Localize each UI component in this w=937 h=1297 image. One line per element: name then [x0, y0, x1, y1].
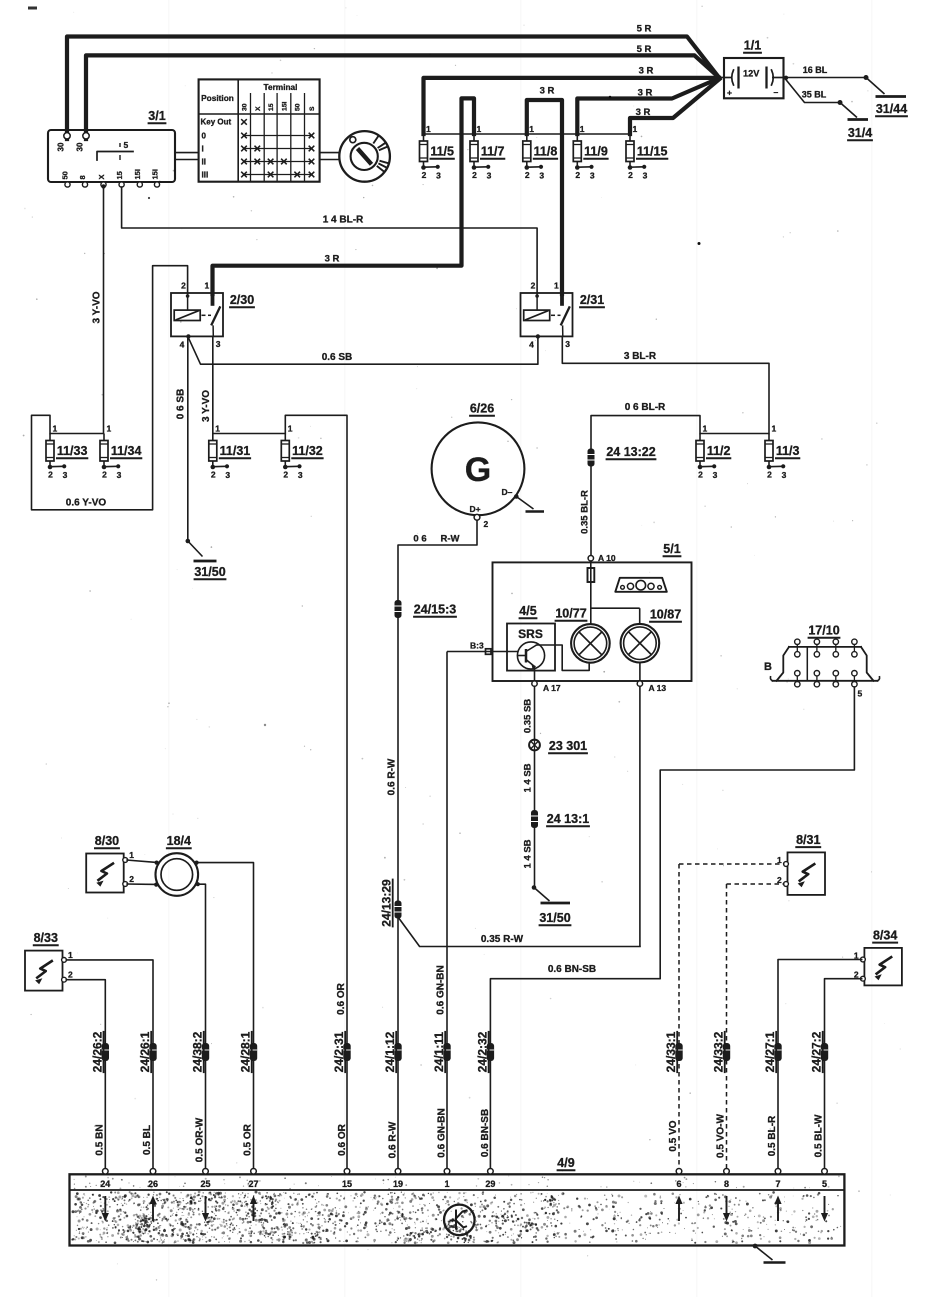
wire 16BL battery to ground 31/44	[786, 65, 885, 94]
svg-text:2: 2	[575, 170, 580, 180]
svg-text:24/27:1: 24/27:1	[763, 1031, 777, 1072]
wire 3R fuse 11/9 to battery 1/1	[577, 78, 719, 134]
svg-text:11/32: 11/32	[292, 444, 323, 458]
wire 3Y-VO relay 2/30 pin 3 to fuse 11/31	[201, 336, 213, 433]
splice 24/26:1	[138, 1031, 157, 1073]
wire 3BL-R relay 2/31 pin 3 to fuse 11/3	[562, 336, 769, 433]
svg-text:0: 0	[202, 131, 207, 140]
wire 0.6BN-SB connector 17/10 pin 5 to instrument 4/9 pin 29	[480, 687, 855, 1171]
svg-text:3: 3	[643, 171, 648, 181]
wire 0.35SB A17 to ground 31/50	[523, 686, 535, 739]
svg-text:0.5 OR-W: 0.5 OR-W	[195, 1117, 206, 1162]
svg-text:3: 3	[713, 470, 718, 480]
svg-text:2: 2	[525, 170, 530, 180]
fuse 11/32	[281, 424, 323, 481]
wire 0.5OR 18/4 to instrument 4/9 pin 27	[197, 863, 254, 1171]
svg-text:11/33: 11/33	[57, 444, 88, 458]
svg-text:3: 3	[117, 470, 122, 480]
svg-text:1: 1	[107, 424, 112, 434]
svg-text:A 10: A 10	[598, 553, 616, 563]
svg-text:17/10: 17/10	[808, 624, 839, 638]
svg-text:11/9: 11/9	[584, 145, 608, 159]
wire 5R ignition 3/1 pin30b to battery 1/1	[86, 55, 719, 139]
ignition switch 3/1	[48, 109, 175, 189]
svg-text:24/38:2: 24/38:2	[191, 1031, 205, 1072]
instrument symbol inside 4/9	[444, 1205, 475, 1236]
splice 24/13:1	[531, 810, 590, 828]
svg-text:8: 8	[78, 175, 87, 179]
svg-text:12V: 12V	[743, 69, 760, 79]
wire 0.5VO dashed 8/31 pin 1 to instrument 4/9 pin 6	[668, 864, 785, 1171]
svg-text:23 301: 23 301	[549, 739, 587, 753]
splice 24/2:31	[332, 1031, 351, 1073]
svg-text:8/31: 8/31	[796, 833, 820, 847]
svg-text:3: 3	[539, 171, 544, 181]
fuse 11/8	[523, 124, 558, 181]
wire 0.5OR-W 18/4 to instrument 4/9 pin 25	[198, 884, 206, 1171]
svg-text:3: 3	[298, 470, 303, 480]
svg-text:–: –	[774, 87, 779, 97]
svg-text:0.5 BL-W: 0.5 BL-W	[814, 1114, 825, 1157]
svg-text:15: 15	[268, 103, 275, 111]
svg-text:5: 5	[124, 140, 129, 150]
fuse 11/33	[46, 424, 88, 481]
splice 24/13:22	[588, 445, 657, 467]
svg-text:I: I	[202, 145, 204, 154]
svg-text:11/8: 11/8	[534, 145, 558, 159]
svg-text:0.5 OR: 0.5 OR	[243, 1123, 254, 1155]
wire 3R fuse 11/5 to battery 1/1	[424, 78, 720, 134]
svg-text:24/33:2: 24/33:2	[712, 1031, 726, 1072]
bulb test point 23/301	[529, 739, 588, 753]
svg-text:35 BL: 35 BL	[802, 90, 827, 100]
svg-text:2: 2	[767, 470, 772, 480]
svg-text:24/15:3: 24/15:3	[414, 603, 456, 617]
svg-text:26: 26	[148, 1179, 158, 1189]
svg-text:3 R: 3 R	[325, 254, 340, 265]
relay 2/30	[171, 281, 255, 350]
wire bus joining fuse pins 1 (11/5-11/15)	[424, 133, 631, 135]
svg-text:3 Y-VO: 3 Y-VO	[201, 390, 212, 422]
splice 24/27:1	[763, 1031, 782, 1073]
svg-text:11/31: 11/31	[220, 444, 251, 458]
svg-text:0.6 SB: 0.6 SB	[322, 352, 353, 363]
svg-text:24/2:31: 24/2:31	[332, 1031, 346, 1072]
wire 0.6BL-R fuse 11/2 to combined instrument pin A10	[580, 402, 701, 555]
svg-text:0.5 VO-W: 0.5 VO-W	[716, 1113, 727, 1157]
svg-text:11/34: 11/34	[111, 444, 142, 458]
svg-text:31/4: 31/4	[848, 126, 872, 140]
ground lead of 4/9	[753, 1244, 786, 1263]
svg-text:0.5 VO: 0.5 VO	[668, 1120, 679, 1151]
svg-text:7: 7	[775, 1179, 780, 1189]
svg-text:R-W: R-W	[441, 534, 460, 545]
svg-text:2: 2	[102, 470, 107, 480]
svg-text:S: S	[309, 106, 316, 111]
svg-text:0.35 SB: 0.35 SB	[523, 699, 534, 733]
wire A13 down to 0.35R-W junction	[639, 686, 641, 946]
svg-text:24/33:1: 24/33:1	[664, 1031, 678, 1072]
svg-text:0.6 BN-SB: 0.6 BN-SB	[548, 964, 596, 975]
svg-text:3 R: 3 R	[639, 66, 654, 77]
svg-text:1: 1	[444, 1179, 449, 1189]
fuse 11/3	[765, 424, 800, 481]
node A17 pin of 5/1	[532, 667, 561, 694]
svg-text:Terminal: Terminal	[264, 82, 298, 92]
wire 0.35R-W splice 24/13:29 to warning lamp 10/87	[398, 917, 640, 947]
wire 0.6OR fuse 11/32 to instrument 4/9 pin 15	[285, 415, 348, 1171]
svg-text:11/2: 11/2	[707, 444, 731, 458]
wire 0.5BL-W 8/34 pin 2 to instrument 4/9 pin 5	[814, 979, 862, 1171]
svg-text:2: 2	[129, 874, 134, 884]
svg-text:19: 19	[393, 1179, 403, 1189]
fuse 11/31	[209, 424, 251, 481]
svg-text:Position: Position	[201, 93, 234, 103]
svg-text:1: 1	[703, 424, 708, 434]
svg-text:4/9: 4/9	[557, 1156, 574, 1170]
svg-text:2: 2	[211, 470, 216, 480]
SRS warning lamp 10/77	[555, 607, 610, 663]
svg-text:15I: 15I	[150, 169, 159, 179]
svg-text:SRS: SRS	[518, 627, 543, 641]
svg-text:15I: 15I	[133, 169, 142, 179]
fuse 11/9	[573, 124, 608, 181]
splice 24/27:2	[810, 1031, 829, 1073]
svg-text:2: 2	[628, 170, 633, 180]
relay 2/31	[521, 281, 605, 350]
svg-text:8/33: 8/33	[34, 931, 58, 945]
svg-text:1/1: 1/1	[744, 39, 761, 53]
fuse 11/15	[626, 124, 668, 181]
svg-text:2: 2	[68, 970, 73, 980]
svg-text:8/34: 8/34	[873, 928, 897, 942]
svg-text:31/50: 31/50	[194, 565, 225, 579]
svg-text:0.35 BL-R: 0.35 BL-R	[580, 490, 591, 534]
svg-text:3 Y-VO: 3 Y-VO	[92, 291, 103, 323]
wire 8/30 pin 2 to 18/4	[126, 883, 156, 885]
ground at generator D-	[526, 510, 545, 513]
wire 0.6SB relay 2/30 pin 4 to ground 31/50	[176, 336, 203, 556]
svg-text:15: 15	[342, 1179, 352, 1189]
control unit 8/31	[777, 833, 825, 895]
svg-text:D–: D–	[502, 487, 513, 497]
svg-text:6/26: 6/26	[470, 402, 494, 416]
svg-text:1: 1	[554, 281, 559, 291]
svg-text:11/3: 11/3	[776, 444, 800, 458]
svg-text:4: 4	[529, 340, 534, 350]
ground 31/50 center	[539, 903, 572, 925]
svg-text:X: X	[97, 174, 106, 179]
svg-text:24/28:1: 24/28:1	[239, 1031, 253, 1072]
wire 0.5BL-R 8/34 pin 1 to instrument 4/9 pin 7	[767, 960, 862, 1172]
svg-text:24: 24	[100, 1179, 110, 1189]
splice 24/33:2	[712, 1031, 731, 1073]
svg-text:50: 50	[295, 103, 302, 111]
svg-text:0.5 BL: 0.5 BL	[142, 1125, 153, 1155]
svg-text:24 13:1: 24 13:1	[547, 812, 589, 826]
svg-text:18/4: 18/4	[167, 834, 191, 848]
splice 24/38:2	[191, 1031, 210, 1073]
ground 31/50 left	[194, 561, 227, 579]
ground 31/4	[847, 120, 873, 141]
svg-text:0.6 GN-BN: 0.6 GN-BN	[437, 1108, 448, 1157]
wire 0.6Y-VO relay 2/30 pin 2 loop to fuse 11/33	[32, 266, 188, 510]
svg-text:0.5 BN: 0.5 BN	[94, 1124, 105, 1155]
wire bus fuses 11/33-11/34	[50, 433, 104, 435]
svg-text:+: +	[727, 88, 732, 98]
svg-text:3 R: 3 R	[540, 86, 555, 97]
svg-text:3: 3	[782, 470, 787, 480]
wire 1.4BL-R ignition pin 15 to relay 2/31 pin 2	[122, 187, 537, 293]
SRS control unit 4/5	[507, 604, 555, 671]
bulb failure warning lamp 10/87	[621, 608, 682, 663]
svg-text:16 BL: 16 BL	[803, 65, 828, 75]
svg-text:31/44: 31/44	[876, 102, 907, 116]
svg-text:3: 3	[436, 171, 441, 181]
wire 0.5BN 8/33 pin 2 to instrument 4/9 pin 24	[66, 980, 105, 1171]
svg-text:3: 3	[63, 470, 68, 480]
svg-text:24/1:12: 24/1:12	[383, 1031, 397, 1072]
svg-text:3: 3	[590, 171, 595, 181]
svg-text:10/77: 10/77	[555, 607, 586, 621]
svg-text:1: 1	[426, 124, 431, 134]
svg-text:0 6 BL-R: 0 6 BL-R	[625, 402, 666, 413]
svg-text:1 4 BL-R: 1 4 BL-R	[323, 215, 364, 226]
splice 24/15:3	[395, 600, 457, 618]
combined instrument 5/1 box	[493, 542, 692, 681]
wire 1.4SB splice 24/13:1 to ground 31/50	[523, 828, 550, 901]
wire link 3/1 to position table	[175, 153, 199, 160]
svg-text:2: 2	[484, 519, 489, 529]
svg-text:5/1: 5/1	[663, 542, 680, 556]
wire 3R fuse 11/15 to battery 1/1	[630, 79, 720, 134]
svg-text:5 R: 5 R	[637, 44, 652, 55]
svg-text:0.5 BL-R: 0.5 BL-R	[767, 1115, 778, 1156]
key switch symbol	[339, 131, 390, 182]
svg-text:31/50: 31/50	[539, 911, 570, 925]
svg-text:D+: D+	[470, 504, 481, 514]
control unit 8/34	[854, 928, 902, 985]
svg-text:III: III	[202, 171, 209, 180]
svg-text:3 R: 3 R	[638, 88, 653, 99]
svg-text:1: 1	[68, 950, 73, 960]
wire 0.5VO-W dashed 8/31 pin 2 to instrument 4/9 pin 8	[716, 884, 785, 1171]
svg-text:29: 29	[485, 1179, 495, 1189]
svg-text:4: 4	[180, 340, 185, 350]
wire link table to key symbol	[320, 153, 340, 160]
wire 0.6GN-BN SRS B:3 to instrument 4/9 pin 1	[436, 652, 448, 1172]
svg-text:25: 25	[200, 1179, 210, 1189]
ignition position-terminal table	[199, 79, 320, 181]
svg-text:11/15: 11/15	[637, 145, 668, 159]
splice 24/33:1	[664, 1031, 683, 1073]
svg-text:1: 1	[772, 424, 777, 434]
svg-text:2/31: 2/31	[580, 293, 604, 307]
svg-text:0.6 GN-BN: 0.6 GN-BN	[436, 965, 447, 1014]
connector strip inside 5/1	[615, 578, 667, 624]
wire 3R fuse 11/7 to relay 2/30 pin 1	[213, 98, 475, 294]
svg-text:2: 2	[698, 470, 703, 480]
wire 1.4SB 23/301 to splice 24/13:1	[523, 750, 535, 810]
svg-text:1: 1	[633, 124, 638, 134]
svg-text:10/87: 10/87	[650, 608, 681, 622]
svg-text:B: B	[764, 661, 772, 673]
svg-text:11/5: 11/5	[430, 145, 454, 159]
svg-text:0 6: 0 6	[413, 534, 426, 545]
svg-text:8: 8	[724, 1179, 729, 1189]
svg-text:24 13:22: 24 13:22	[606, 445, 655, 459]
svg-text:1: 1	[288, 424, 293, 434]
svg-text:4/5: 4/5	[519, 604, 536, 618]
fuse 11/34	[100, 424, 142, 481]
svg-text:X: X	[255, 106, 262, 111]
svg-text:11/7: 11/7	[481, 145, 505, 159]
combined instrument 4/9	[70, 1156, 845, 1246]
svg-text:24/2:32: 24/2:32	[475, 1031, 489, 1072]
svg-text:24/13:29: 24/13:29	[380, 879, 394, 927]
splice 24/28:1	[239, 1031, 258, 1073]
wire B:3 SRS input	[447, 641, 518, 655]
splice 24/13:29	[380, 879, 402, 928]
svg-text:1: 1	[477, 124, 482, 134]
clock 8/33	[25, 931, 73, 991]
svg-text:2: 2	[48, 470, 53, 480]
svg-text:8/30: 8/30	[95, 834, 119, 848]
wire 0.6R-W generator D+ to instrument 4/9 pin 19	[387, 520, 478, 1171]
svg-text:2/30: 2/30	[230, 293, 254, 307]
wire SRS output to lamp 10/77	[537, 645, 590, 670]
splice 24/26:2	[90, 1031, 109, 1073]
svg-text:3 BL-R: 3 BL-R	[624, 351, 657, 362]
horn unit 8/30	[86, 834, 134, 893]
node A10 pin of 5/1	[588, 553, 616, 563]
svg-text:30: 30	[76, 142, 85, 151]
svg-text:27: 27	[248, 1179, 258, 1189]
svg-text:2: 2	[531, 281, 536, 291]
connector 17/10	[764, 624, 880, 699]
wire 5R ignition 3/1 pin30a to battery 1/1	[67, 37, 719, 140]
wire 0.5BL 8/33 pin 1 to instrument 4/9 pin 26	[66, 960, 153, 1171]
svg-text:0.6 BN-SB: 0.6 BN-SB	[480, 1109, 491, 1157]
svg-text:5 R: 5 R	[637, 24, 652, 35]
svg-text:0.6 OR: 0.6 OR	[337, 1123, 348, 1155]
svg-text:1 4 SB: 1 4 SB	[523, 839, 534, 868]
wire generator D- to chassis ground	[516, 497, 533, 510]
wire 35BL battery to ground 31/4	[784, 76, 857, 118]
svg-text:A 13: A 13	[649, 683, 667, 693]
node A13 pin of 5/1	[637, 663, 666, 694]
wire bus fuses 11/2-11/3	[700, 433, 769, 435]
splice 24/1:11	[432, 1031, 451, 1073]
horn 18/4	[154, 834, 200, 896]
generator 6/26	[432, 402, 525, 530]
wire bus fuses 11/31-11/32	[213, 433, 285, 435]
svg-text:50: 50	[61, 171, 70, 179]
fuse 11/5	[420, 124, 455, 181]
svg-text:15I: 15I	[281, 101, 288, 111]
svg-text:2: 2	[472, 170, 477, 180]
ground 31/44	[875, 97, 908, 117]
svg-text:1: 1	[529, 124, 534, 134]
svg-text:2: 2	[283, 470, 288, 480]
splice 24/1:12	[383, 1031, 402, 1073]
wire A10 lead to warning lamps inside 5/1	[588, 561, 640, 624]
svg-text:5: 5	[822, 1179, 827, 1189]
svg-text:24/26:2: 24/26:2	[90, 1031, 104, 1072]
wire 0.6SB relay 2/30 pin 4 to relay 2/31 pin 4	[188, 336, 538, 364]
svg-text:1 4 SB: 1 4 SB	[523, 763, 534, 792]
svg-text:24/27:2: 24/27:2	[810, 1031, 824, 1072]
svg-text:2: 2	[181, 281, 186, 291]
svg-text:G: G	[465, 451, 491, 489]
svg-text:0 6 SB: 0 6 SB	[176, 389, 187, 420]
svg-text:1: 1	[215, 424, 220, 434]
svg-text:5: 5	[858, 689, 863, 699]
svg-text:Key Out: Key Out	[201, 118, 232, 127]
svg-text:30: 30	[57, 142, 66, 151]
svg-text:0.35 R-W: 0.35 R-W	[481, 934, 524, 945]
svg-text:0.6 OR: 0.6 OR	[336, 982, 347, 1014]
svg-text:1: 1	[205, 281, 210, 291]
svg-text:3: 3	[565, 339, 570, 349]
svg-text:3: 3	[487, 171, 492, 181]
svg-text:15: 15	[115, 171, 124, 179]
wire 3R fuse 11/8 to relay 2/31 pin 1	[527, 100, 562, 294]
svg-text:A 17: A 17	[543, 683, 561, 693]
battery 1/1 12V	[719, 39, 786, 99]
fuse 11/7	[470, 124, 505, 181]
wire 8/30 pin 1 to 18/4	[126, 860, 156, 862]
splice 24/2:32	[475, 1031, 494, 1073]
svg-text:3: 3	[225, 470, 230, 480]
svg-text:3 R: 3 R	[636, 107, 651, 118]
fuse 11/2	[696, 424, 731, 481]
svg-text:0.6 R-W: 0.6 R-W	[388, 1121, 399, 1158]
wire 3Y-VO ignition pin X to fuse 11/34	[92, 187, 104, 434]
svg-text:3: 3	[216, 339, 221, 349]
svg-text:1: 1	[53, 424, 58, 434]
svg-text:6: 6	[676, 1179, 681, 1189]
svg-text:B:3: B:3	[470, 641, 484, 651]
svg-text:0.6 R-W: 0.6 R-W	[387, 758, 398, 795]
svg-text:24/1:11: 24/1:11	[432, 1032, 446, 1072]
svg-text:1: 1	[129, 850, 134, 860]
svg-text:1: 1	[580, 124, 585, 134]
svg-text:II: II	[202, 158, 206, 167]
svg-text:2: 2	[422, 170, 427, 180]
svg-text:30: 30	[242, 103, 249, 111]
svg-text:3/1: 3/1	[148, 109, 165, 123]
svg-text:24/26:1: 24/26:1	[138, 1031, 152, 1072]
svg-text:0.6 Y-VO: 0.6 Y-VO	[66, 498, 107, 509]
